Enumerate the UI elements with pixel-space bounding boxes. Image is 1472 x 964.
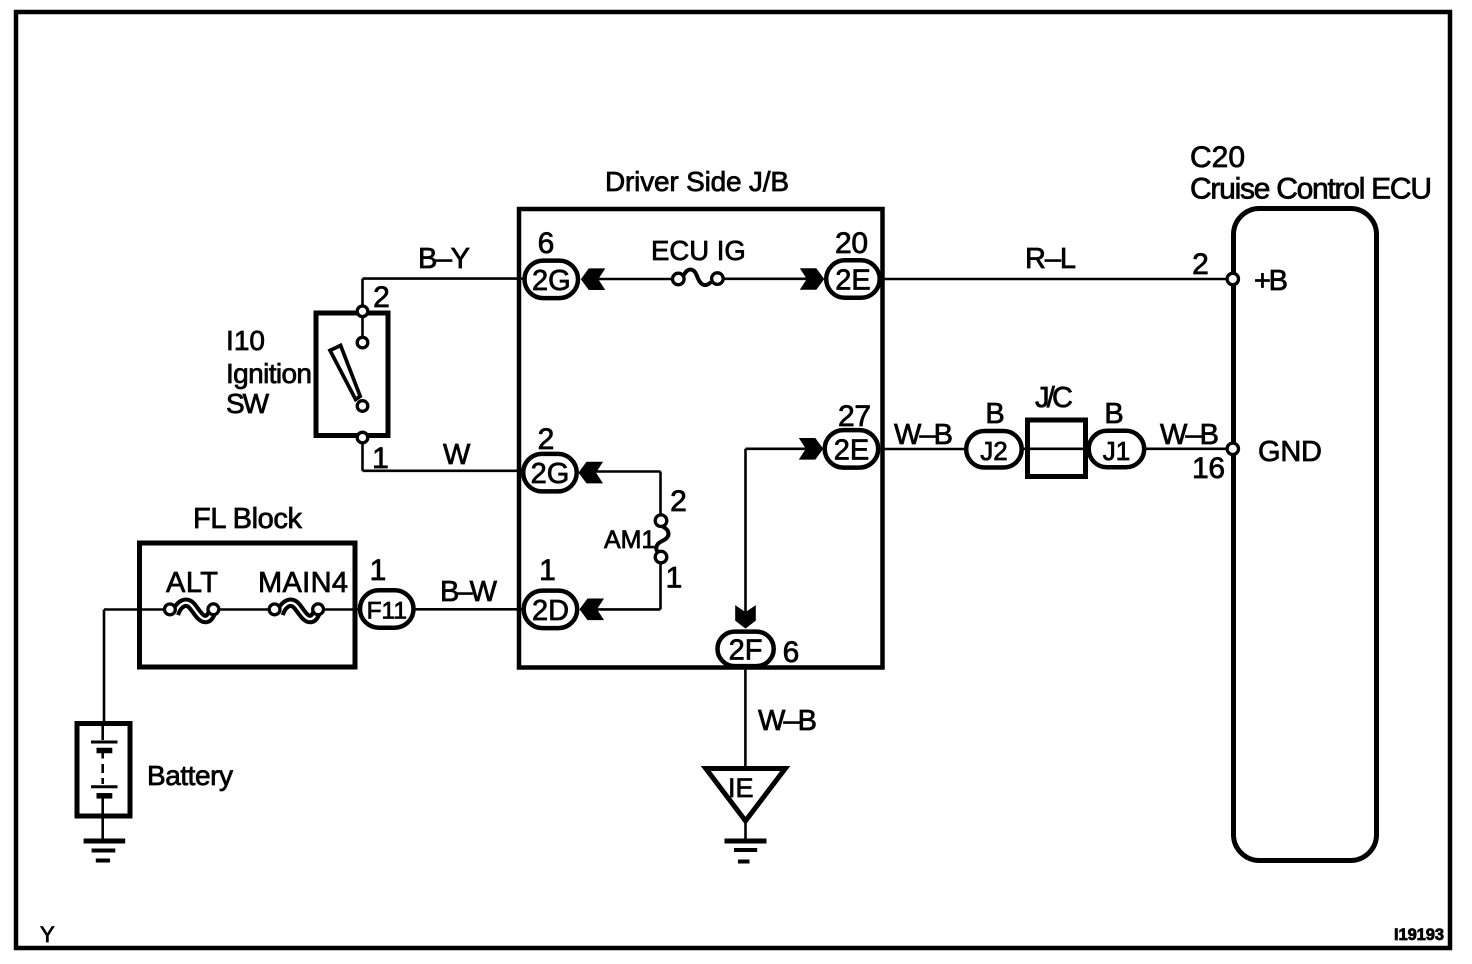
svg-text:6: 6 <box>783 636 800 669</box>
svg-text:B: B <box>985 398 1004 430</box>
svg-text:+B: +B <box>1254 265 1288 297</box>
battery cell 1 short plate <box>97 748 113 754</box>
wire IE apex stem <box>744 819 747 840</box>
svg-text:ALT: ALT <box>166 567 218 599</box>
svg-text:16: 16 <box>1192 452 1225 485</box>
svg-text:J2: J2 <box>980 436 1007 466</box>
pin 1 circle of ignition switch <box>357 432 368 443</box>
wire through J/C junction <box>1022 447 1090 450</box>
svg-text:1: 1 <box>539 554 556 587</box>
battery cell 2 short plate <box>97 793 113 799</box>
battery cell 2 long plate <box>91 785 118 788</box>
wire from 2G pin2 arrow to AM1 <box>596 470 661 473</box>
battery center stub <box>101 752 104 759</box>
svg-text:Y: Y <box>40 922 55 947</box>
svg-text:W–B: W–B <box>894 419 953 451</box>
battery cell 1 long plate <box>91 741 118 744</box>
svg-text:2F: 2F <box>729 635 763 667</box>
svg-text:Cruise Control ECU: Cruise Control ECU <box>1190 173 1432 206</box>
battery dashed link <box>101 764 104 784</box>
svg-text:FL Block: FL Block <box>193 503 303 535</box>
ground symbol under IE <box>725 841 767 862</box>
connector 2G pin 2 <box>523 454 577 492</box>
wire battery feed into FL block <box>104 608 172 611</box>
svg-text:W: W <box>443 439 471 471</box>
wire W-B from 2F down to IE ground <box>744 668 747 767</box>
svg-text:F11: F11 <box>367 598 407 625</box>
wire W-B from J1 to ECU GND <box>1144 447 1226 450</box>
connector 2E pin 20 <box>826 260 880 298</box>
contact circle upper <box>357 337 368 348</box>
arrow into 2D pin1 <box>580 599 605 621</box>
wire vertical branch down to 2F <box>744 449 747 613</box>
svg-text:Driver Side J/B: Driver Side J/B <box>605 166 789 197</box>
svg-text:1: 1 <box>372 442 389 475</box>
battery top lead <box>101 721 104 740</box>
fusible link MAIN4 <box>269 603 323 619</box>
svg-text:2G: 2G <box>531 458 570 490</box>
svg-text:2E: 2E <box>835 265 870 297</box>
svg-text:R–L: R–L <box>1025 243 1076 275</box>
ground point IE triangle <box>706 769 786 821</box>
FL Block box <box>140 543 356 667</box>
battery box <box>77 724 130 817</box>
wire ECU IG left segment <box>597 278 672 281</box>
ECU terminal circle +B <box>1227 273 1238 284</box>
wire R-L from 2E pin20 to ECU +B <box>883 278 1226 281</box>
svg-text:Battery: Battery <box>147 760 233 791</box>
arrow into 2E pin27 <box>799 438 824 460</box>
svg-text:20: 20 <box>835 227 868 260</box>
svg-text:I10: I10 <box>226 325 265 356</box>
ignition switch blade <box>330 345 360 399</box>
junction connector J/C box <box>1028 420 1086 477</box>
connector 2G pin 6 <box>525 261 579 299</box>
wire B-Y vertical drop to pin 2 <box>361 279 364 305</box>
fuse ECU IG symbol <box>673 270 724 286</box>
ignition switch I10 box <box>316 313 388 436</box>
arrow into 2F pin6 <box>735 605 756 629</box>
battery bottom lead <box>101 798 104 841</box>
connector 2E pin 27 <box>825 430 879 468</box>
wire MAIN4 to F11 <box>317 608 360 611</box>
wire battery vertical feed <box>103 610 106 723</box>
contact circle lower <box>357 401 368 412</box>
svg-text:W–B: W–B <box>758 705 817 737</box>
svg-text:W–B: W–B <box>1160 419 1219 451</box>
svg-text:Ignition: Ignition <box>226 358 312 389</box>
svg-text:1: 1 <box>370 554 387 587</box>
svg-text:2E: 2E <box>834 434 869 466</box>
connector F11 <box>360 590 414 628</box>
wire AM1 to 2D arrow <box>597 608 661 611</box>
fusible link ALT <box>165 603 219 619</box>
junction block Driver Side J/B <box>519 209 883 668</box>
svg-text:AM1: AM1 <box>604 526 655 554</box>
arrow into 2G pin6 <box>581 268 606 290</box>
wire AM1 lower vertical <box>659 564 662 610</box>
svg-text:IE: IE <box>728 773 754 803</box>
svg-text:GND: GND <box>1258 436 1322 468</box>
connector 2D pin 1 <box>524 591 578 629</box>
wire ignition internal link pin2 to contact <box>361 318 364 337</box>
pin 2 circle of ignition switch <box>357 306 368 317</box>
wire ALT to MAIN4 <box>213 608 276 611</box>
wire W-B from 2E pin27 to J2 <box>883 448 966 451</box>
svg-text:1: 1 <box>666 562 683 595</box>
connector J1 <box>1089 431 1145 468</box>
svg-text:MAIN4: MAIN4 <box>258 567 348 599</box>
arrow into 2G pin2 <box>579 462 604 484</box>
wire B-W from F11 to 2D <box>415 608 523 611</box>
svg-text:B: B <box>1104 398 1123 430</box>
svg-text:27: 27 <box>838 400 871 433</box>
wire AM1 upper vertical <box>659 472 662 515</box>
wire B-Y horizontal from ignition SW pin 2 to 2G <box>363 277 524 280</box>
wire ECU IG right segment <box>724 277 808 280</box>
wire W vertical from ignition pin 1 <box>361 444 364 471</box>
Cruise Control ECU box C20 <box>1234 209 1377 861</box>
ECU terminal circle GND <box>1227 443 1238 454</box>
svg-text:J/C: J/C <box>1035 382 1073 414</box>
svg-text:2: 2 <box>538 423 555 456</box>
svg-text:I19193: I19193 <box>1394 926 1444 944</box>
svg-text:B–W: B–W <box>440 576 498 608</box>
fuse AM1 symbol <box>655 515 668 563</box>
svg-text:C20: C20 <box>1190 141 1245 174</box>
svg-text:B–Y: B–Y <box>418 243 470 275</box>
svg-text:2: 2 <box>373 281 390 314</box>
connector 2F pin 6 <box>718 632 774 667</box>
svg-text:SW: SW <box>226 388 270 419</box>
wire W horizontal to 2G <box>363 469 524 472</box>
arrow into 2E pin20 <box>800 268 825 290</box>
svg-text:2G: 2G <box>532 265 571 297</box>
wire from branch node to 2E pin27 arrow <box>746 447 809 450</box>
svg-text:ECU IG: ECU IG <box>651 235 746 266</box>
svg-text:2: 2 <box>670 485 687 518</box>
svg-text:2: 2 <box>1192 248 1209 281</box>
connector J2 <box>966 431 1022 468</box>
svg-text:J1: J1 <box>1103 436 1130 466</box>
ground symbol under battery <box>84 841 126 861</box>
svg-text:6: 6 <box>538 227 555 260</box>
svg-text:2D: 2D <box>532 595 569 627</box>
